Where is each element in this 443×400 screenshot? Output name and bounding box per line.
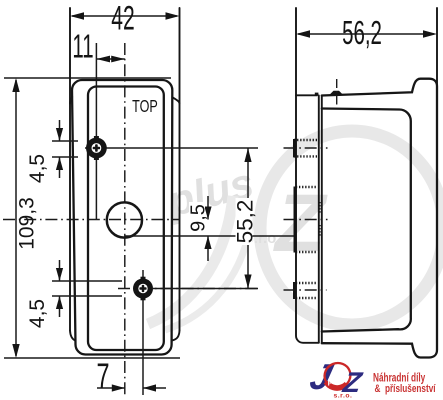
arrowhead right 56,2 [423,30,437,37]
arrowhead right 42 [166,12,180,19]
4,5 top arrow down [59,120,61,141]
dimension line 56,2 [298,33,434,35]
watermark J swoosh [148,196,233,324]
55,2 bottom ext line [152,288,258,290]
svg-text:4,5: 4,5 [26,299,49,328]
bottom stud threads [296,282,318,284]
svg-text:9,5: 9,5 [188,204,210,232]
dimension line 11 [96,58,124,60]
label 9,5 [189,202,205,234]
svg-text:42: 42 [111,0,134,37]
9,5 arrow up [207,236,209,261]
lug bump on top arm [329,91,344,95]
arrowhead down 109,3 [12,344,19,358]
9,5 line [125,235,294,237]
svg-text:4,5: 4,5 [26,154,49,183]
svg-text:11: 11 [72,27,93,64]
extension line bottom (109,3) [4,357,180,359]
logo red swirl ring [321,359,354,392]
label 55,2 [236,198,253,245]
dimension line 55,2 [247,148,249,289]
lug centre line [336,79,338,106]
ext line 56,2 right upper [436,8,438,87]
extension line top (109,3) [4,77,171,79]
4,5 bottom arrow up [59,296,61,317]
svg-text:TOP: TOP [132,97,158,117]
flange connector top-right [172,97,179,104]
bottom screw line [118,288,258,290]
mounting plate front line [318,95,320,342]
bottom stud cap [293,282,297,299]
vertical centre line [124,43,126,395]
4,5 top upper line [52,140,78,142]
housing outer profile [322,79,437,358]
watermark J swoosh 2 [165,215,252,330]
top stud cap [293,139,297,157]
9,5 arrow down [207,196,209,220]
flange connector bottom-right [172,331,180,341]
top screw line to 55,2 [85,147,258,149]
dimension line 7 right [143,387,166,389]
arrowhead 7 left [112,384,125,391]
svg-text:s.r.o.: s.r.o. [334,393,353,400]
4,5 bottom upper line [52,280,122,282]
top screw [86,136,107,160]
flange connector bottom-left [70,331,75,341]
arrowhead down 55,2 [244,275,251,289]
svg-text:55,2: 55,2 [233,200,258,244]
svg-text:& příslušenství: & příslušenství [375,383,437,396]
bottom screw [133,277,153,301]
flange connector top-left [70,97,72,104]
4,5 bottom arrow down [59,260,61,281]
bracket top edge [296,94,317,96]
arrowhead 7 right [143,384,156,391]
centre circle [107,202,142,237]
svg-text:56,2: 56,2 [342,14,382,51]
4,5 top lower line [52,156,78,158]
ext line 42 left / flange left [69,8,71,331]
top stud centre line [284,147,328,149]
plate thread dots vertical [318,202,320,214]
ext line 56,2 left / bracket left edge [296,8,319,343]
watermark swirl ring [260,131,443,325]
side view centre line [284,219,328,221]
horizontal centre line [3,219,180,221]
central boss cap [294,187,297,253]
arrowhead up 55,2 [244,148,251,162]
arrowhead left 42 [70,12,84,19]
top stud threads [294,139,319,141]
bracket top nub [315,93,319,96]
arrowhead up 109,3 [12,78,19,92]
screw centre ext line (11 dim) [95,43,97,220]
arrowhead left 11 [96,56,110,63]
housing inner line top [322,109,411,332]
mounting plate rear line [321,95,323,343]
4,5 bottom lower line [52,295,122,297]
4,5 top arrow up [59,157,61,178]
dimension line 109,3 [15,80,17,356]
svg-text:7: 7 [96,357,109,396]
bottom screw vertical line [142,270,144,395]
svg-text:109,3: 109,3 [16,197,39,250]
arrowhead right 11 [111,56,125,63]
logo red swirl thick arc [321,359,354,392]
dimension line 42 [72,15,177,17]
dimension line 7 left [97,387,125,389]
bottom stud centre line [284,289,327,291]
body outline front [72,80,172,355]
arrowhead left 56,2 [296,30,310,37]
ext line 42 right / flange right [179,8,181,331]
lens outline front [88,87,164,351]
central boss threads [296,186,317,188]
